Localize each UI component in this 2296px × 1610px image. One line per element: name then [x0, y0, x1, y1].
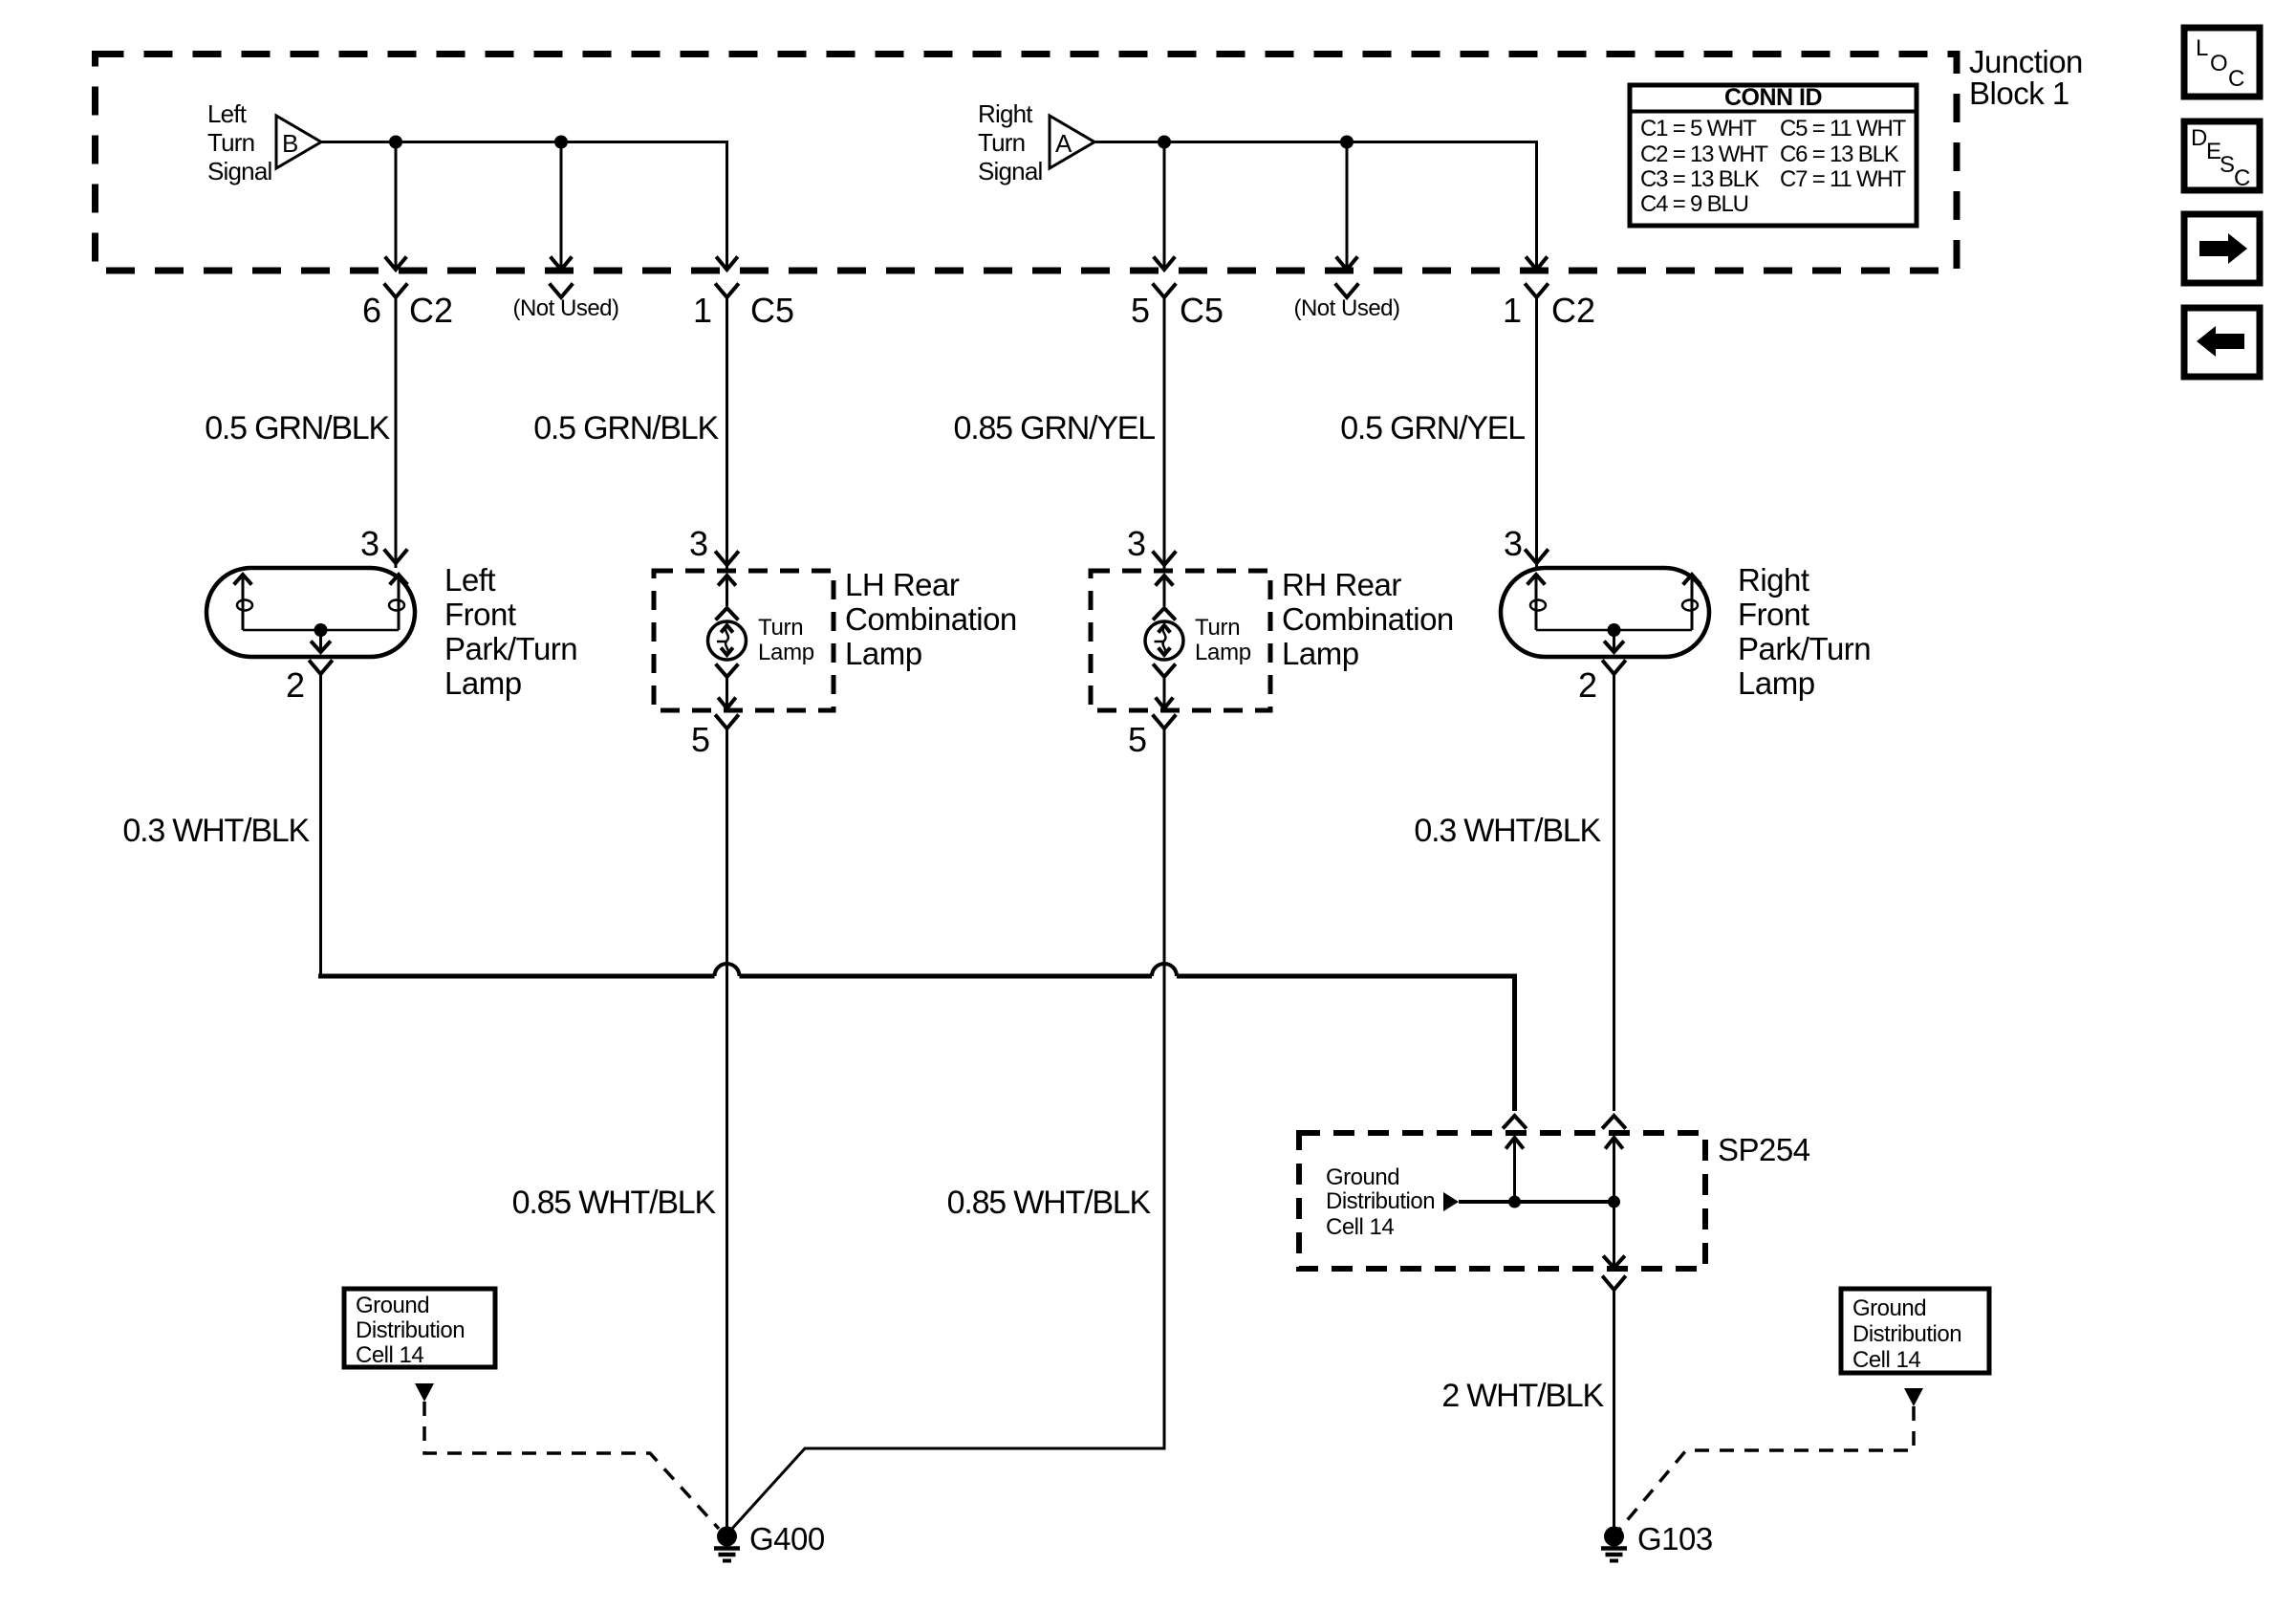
svg-text:Lamp: Lamp: [444, 665, 522, 701]
svg-text:C: C: [2228, 66, 2244, 92]
svg-text:Lamp: Lamp: [1738, 665, 1815, 701]
wire RH rear pin5 down then to G400: [730, 729, 1164, 1531]
wire right front pin2 down to SP254: [1613, 674, 1615, 1111]
junction block 1 dashed box: [96, 54, 1958, 272]
arrowhead: [552, 258, 571, 270]
svg-text:0.85 WHT/BLK: 0.85 WHT/BLK: [947, 1185, 1152, 1221]
junction dot: [1340, 136, 1354, 149]
ground distribution cell 14 box right: [1841, 1289, 1989, 1373]
connector chevron 6 C2: [385, 285, 406, 297]
svg-text:Cell 14: Cell 14: [1852, 1347, 1920, 1373]
left front lamp filament right: [398, 576, 401, 630]
svg-text:3: 3: [689, 524, 708, 563]
ground distribution cell 14 box left: [344, 1289, 495, 1367]
pin chevron left front 2: [311, 662, 332, 674]
dashed reference wire to G103: [1619, 1406, 1914, 1530]
wire to RH rear lamp pin3: [1163, 297, 1166, 571]
junction dot: [389, 136, 402, 149]
ground bus wire: [318, 974, 715, 979]
svg-text:Park/Turn: Park/Turn: [444, 631, 577, 666]
pin chevron LH rear 3: [717, 553, 738, 565]
svg-text:5: 5: [691, 720, 710, 759]
svg-text:Lamp: Lamp: [1195, 640, 1251, 665]
RH rear lamp entry arrow: [1163, 577, 1166, 606]
svg-text:Distribution: Distribution: [356, 1317, 465, 1343]
wire drop pin6 C2: [395, 142, 398, 270]
svg-text:Cell 14: Cell 14: [1326, 1214, 1394, 1240]
ground G400: [717, 1527, 737, 1547]
dashed reference wire to G400: [424, 1402, 719, 1529]
icon LOC: [2184, 28, 2260, 97]
svg-text:0.3 WHT/BLK: 0.3 WHT/BLK: [1414, 813, 1601, 849]
svg-text:C5 = 11 WHT: C5 = 11 WHT: [1780, 116, 1907, 141]
CONN ID table box: [1630, 85, 1917, 226]
svg-text:5: 5: [1131, 291, 1150, 330]
LH rear lamp exit arrow: [726, 677, 728, 707]
splice chevron above SP254 left: [1505, 1116, 1526, 1127]
svg-text:Cell 14: Cell 14: [356, 1342, 423, 1368]
svg-text:LH Rear: LH Rear: [845, 567, 960, 602]
wire drop pin5 C5: [1163, 142, 1166, 270]
splice chevron below SP254: [1604, 1277, 1625, 1290]
svg-text:Front: Front: [444, 597, 516, 632]
svg-text:G400: G400: [749, 1521, 825, 1556]
splice entry arrow left: [1513, 1138, 1516, 1202]
svg-text:Park/Turn: Park/Turn: [1738, 631, 1871, 666]
turn lamp bulb LH: [708, 621, 747, 660]
svg-text:Turn: Turn: [978, 128, 1025, 157]
svg-text:5: 5: [1128, 720, 1147, 759]
arrowhead: [386, 258, 405, 270]
svg-text:Right: Right: [1738, 562, 1809, 598]
svg-text:C4 = 9 BLU: C4 = 9 BLU: [1640, 191, 1748, 217]
svg-text:Ground: Ground: [356, 1293, 429, 1318]
svg-text:Signal: Signal: [978, 157, 1042, 185]
wire left front pin2 down: [319, 674, 322, 974]
arrowhead: [1527, 258, 1547, 270]
right front lamp common bar: [1536, 629, 1692, 632]
svg-text:0.3 WHT/BLK: 0.3 WHT/BLK: [122, 813, 310, 849]
RH rear lamp exit arrow: [1163, 677, 1166, 707]
svg-text:Ground: Ground: [1326, 1164, 1399, 1190]
pin chevron RH rear 5: [1154, 716, 1175, 729]
svg-text:C3 = 13 BLK: C3 = 13 BLK: [1640, 166, 1760, 192]
svg-text:B: B: [282, 129, 298, 158]
splice dot: [1508, 1196, 1521, 1208]
svg-text:C2: C2: [1551, 291, 1595, 330]
svg-text:D: D: [2191, 125, 2207, 151]
right front lamp filament right: [1691, 576, 1694, 630]
svg-text:Turn: Turn: [207, 128, 254, 157]
svg-text:Lamp: Lamp: [845, 636, 922, 671]
wire SP254 to G103: [1613, 1290, 1615, 1528]
wire drop not used left: [560, 142, 563, 270]
pin chevron right front 3: [1527, 551, 1548, 563]
arrowhead: [718, 258, 737, 270]
svg-text:1: 1: [1503, 291, 1522, 330]
junction dot: [554, 136, 568, 149]
svg-text:C6 = 13 BLK: C6 = 13 BLK: [1780, 141, 1899, 167]
node B left turn signal triangle: [276, 116, 321, 168]
splice dot: [1608, 1196, 1620, 1208]
junction dot: [1158, 136, 1171, 149]
wire to left front lamp pin3: [395, 297, 398, 568]
pin chevron LH rear 5: [717, 716, 738, 729]
svg-text:Distribution: Distribution: [1326, 1188, 1435, 1214]
svg-text:SP254: SP254: [1718, 1132, 1810, 1167]
svg-text:Combination: Combination: [845, 601, 1017, 637]
connector chevron 5 C5: [1154, 285, 1175, 297]
svg-text:(Not Used): (Not Used): [1293, 295, 1399, 321]
svg-text:A: A: [1055, 129, 1072, 158]
connector chevron not used left: [551, 285, 572, 297]
svg-text:0.5 GRN/YEL: 0.5 GRN/YEL: [1340, 410, 1525, 446]
wire LH rear pin5 down to G400: [726, 729, 728, 1528]
splice entry arrow right: [1613, 1138, 1615, 1202]
connector chevron 1 C5: [717, 285, 738, 297]
svg-text:O: O: [2210, 51, 2227, 76]
left front lamp filament left: [242, 576, 245, 630]
LH rear lamp chevron bottom: [717, 665, 737, 677]
wire to right front lamp pin3: [1535, 297, 1538, 568]
wire right feed horizontal: [1094, 142, 1537, 270]
svg-text:C7 = 11 WHT: C7 = 11 WHT: [1780, 166, 1907, 192]
ground G103: [1604, 1527, 1624, 1547]
svg-text:RH Rear: RH Rear: [1282, 567, 1401, 602]
ground bus wire to SP254: [1177, 976, 1515, 1111]
arrowhead: [1337, 258, 1356, 270]
svg-text:Ground: Ground: [1852, 1295, 1926, 1321]
pin chevron RH rear 3: [1154, 553, 1175, 565]
svg-text:0.5 GRN/BLK: 0.5 GRN/BLK: [533, 410, 719, 446]
node A right turn signal triangle: [1050, 116, 1094, 168]
svg-text:0.85 WHT/BLK: 0.85 WHT/BLK: [512, 1185, 717, 1221]
svg-text:Left: Left: [207, 99, 248, 128]
svg-text:1: 1: [693, 291, 712, 330]
svg-text:L: L: [2196, 35, 2208, 61]
splice exit arrow: [1613, 1202, 1615, 1267]
pin chevron right front 2: [1604, 662, 1625, 674]
icon arrow left: [2184, 308, 2260, 377]
svg-text:(Not Used): (Not Used): [512, 295, 618, 321]
splice feed triangle: [1443, 1192, 1459, 1211]
turn lamp bulb RH: [1145, 621, 1183, 660]
svg-text:C: C: [2234, 165, 2250, 191]
icon arrow right: [2184, 214, 2260, 283]
svg-text:S: S: [2220, 152, 2235, 178]
RH rear lamp chevron bottom: [1155, 665, 1175, 677]
svg-text:0.5 GRN/BLK: 0.5 GRN/BLK: [205, 410, 390, 446]
svg-text:Signal: Signal: [207, 157, 271, 185]
LH rear lamp entry arrow: [726, 577, 728, 606]
svg-text:2 WHT/BLK: 2 WHT/BLK: [1441, 1378, 1604, 1414]
pin chevron left front 3: [385, 551, 406, 563]
svg-text:C5: C5: [750, 291, 794, 330]
ground bus wire: [740, 974, 1153, 979]
RH rear lamp chevron top: [1155, 608, 1175, 619]
svg-text:CONN ID: CONN ID: [1724, 84, 1822, 111]
svg-text:G103: G103: [1637, 1521, 1713, 1556]
svg-text:C2: C2: [409, 291, 453, 330]
svg-text:C5: C5: [1180, 291, 1224, 330]
splice bar SP254: [1459, 1200, 1614, 1204]
connector chevron not used right: [1336, 285, 1357, 297]
splice chevron above SP254 right: [1604, 1116, 1625, 1127]
svg-text:Lamp: Lamp: [758, 640, 814, 665]
wire left feed horizontal: [321, 142, 727, 270]
svg-text:Left: Left: [444, 562, 495, 598]
svg-text:Turn: Turn: [758, 615, 803, 641]
svg-text:Block 1: Block 1: [1969, 76, 2069, 111]
arrowhead: [1155, 258, 1174, 270]
svg-text:2: 2: [286, 665, 305, 705]
svg-text:2: 2: [1578, 665, 1597, 705]
left front park/turn lamp body: [206, 568, 415, 657]
svg-text:C2 = 13 WHT: C2 = 13 WHT: [1640, 141, 1768, 167]
wire drop not used right: [1346, 142, 1349, 270]
svg-text:3: 3: [1504, 524, 1523, 563]
svg-text:C1 = 5 WHT: C1 = 5 WHT: [1640, 116, 1757, 141]
svg-text:Distribution: Distribution: [1852, 1321, 1961, 1347]
left front lamp common bar: [243, 629, 399, 632]
connector chevron 1 C2: [1527, 285, 1548, 297]
RH rear combination lamp dashed box: [1091, 571, 1270, 710]
reference triangle right: [1904, 1388, 1923, 1406]
svg-text:Front: Front: [1738, 597, 1809, 632]
svg-text:Combination: Combination: [1282, 601, 1454, 637]
svg-text:6: 6: [362, 291, 381, 330]
reference triangle left: [415, 1383, 434, 1402]
SP254 dashed box: [1299, 1133, 1705, 1269]
wire hop over RH rear wire: [1152, 964, 1177, 976]
svg-text:Junction: Junction: [1969, 44, 2083, 79]
LH rear combination lamp dashed box: [654, 571, 834, 710]
svg-text:Lamp: Lamp: [1282, 636, 1359, 671]
svg-text:0.85 GRN/YEL: 0.85 GRN/YEL: [954, 410, 1156, 446]
right front lamp filament left: [1535, 576, 1538, 630]
wire to LH rear lamp pin3: [726, 297, 728, 571]
svg-text:3: 3: [1127, 524, 1146, 563]
svg-text:Right: Right: [978, 99, 1033, 128]
icon DESC: [2184, 121, 2260, 190]
LH rear lamp chevron top: [717, 608, 737, 619]
svg-text:3: 3: [360, 524, 379, 563]
right front park/turn lamp body: [1501, 568, 1709, 657]
wire hop over LH rear wire: [715, 964, 740, 976]
svg-text:Turn: Turn: [1195, 615, 1240, 641]
